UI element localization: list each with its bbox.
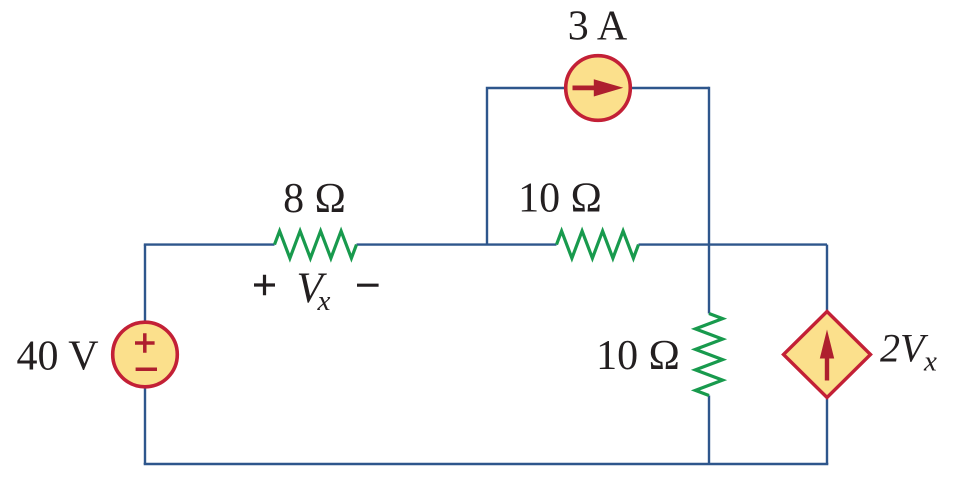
- minus sign inside 40V source: [136, 368, 157, 372]
- wire: middle horizontal center segment (8-ohm to 10-ohm): [357, 243, 557, 245]
- svg-text:40 V: 40 V: [17, 334, 99, 380]
- dependent source 2Vx diamond: [784, 312, 871, 398]
- svg-text:x: x: [317, 285, 331, 317]
- wire: top branch (up, across through 3A, down at right): [487, 88, 709, 245]
- wire: right vertical below 10-ohm resistor: [708, 396, 710, 465]
- label + Vx - (voltage across 8-ohm): [254, 275, 275, 296]
- current source I1 3A circle: [566, 56, 631, 121]
- svg-text:2V: 2V: [880, 326, 929, 371]
- svg-text:10 Ω: 10 Ω: [596, 333, 680, 379]
- svg-text:3 A: 3 A: [568, 4, 628, 50]
- resistor R3 10-ohm vertical zigzag: [695, 314, 722, 396]
- wire: middle horizontal right segment (10-ohm to 2Vx branch): [639, 243, 828, 245]
- resistor R1 8-ohm zigzag: [275, 231, 357, 258]
- wire: bottom horizontal: [144, 463, 829, 466]
- wire: left branch vertical (40V branch): [144, 245, 146, 464]
- svg-text:8 Ω: 8 Ω: [283, 176, 346, 222]
- plus sign inside 40V source: [135, 333, 155, 353]
- arrow inside diamond (up): [820, 330, 834, 381]
- wire: right vertical above 10-ohm resistor: [708, 87, 710, 314]
- wire: 2Vx branch vertical: [826, 245, 828, 464]
- arrow inside 3A source: [573, 79, 624, 96]
- svg-text:10 Ω: 10 Ω: [518, 176, 602, 222]
- svg-text:x: x: [923, 346, 937, 378]
- resistor R2 10-ohm horizontal zigzag: [557, 231, 639, 258]
- wire: middle horizontal left segment (node to 8-ohm): [144, 243, 275, 245]
- voltage source V1 40V circle: [113, 322, 178, 387]
